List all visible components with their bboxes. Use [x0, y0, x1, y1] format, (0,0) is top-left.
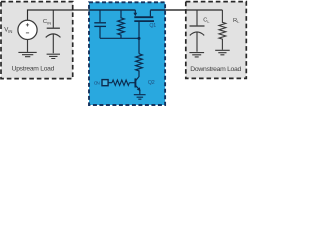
svg-text:Q2: Q2	[148, 80, 155, 86]
transistor Q1	[133, 10, 154, 21]
load switch box	[89, 2, 165, 105]
upstream load box	[1, 2, 73, 79]
transistor Q2	[135, 78, 140, 94]
wire: Q1 drain to RL	[150, 9, 222, 11]
ground (Vin)	[18, 52, 36, 56]
wire: R3 to base	[129, 82, 134, 84]
capacitor C_L	[190, 10, 205, 52]
resistor R3 (base)	[112, 80, 129, 85]
wire: Vin to ground	[27, 40, 29, 52]
svg-text:CL: CL	[203, 18, 210, 24]
node gate junction	[138, 37, 141, 40]
svg-text:ON: ON	[94, 81, 101, 87]
wire: rail inside switch	[88, 9, 135, 11]
wire: Vin to Q1 source	[28, 10, 136, 20]
svg-text:Q1: Q1	[149, 23, 156, 29]
svg-text:Downstream Load: Downstream Load	[190, 66, 241, 73]
downstream load box	[186, 2, 247, 79]
wire: switch output to downstream	[165, 9, 185, 11]
capacitor C1 (timing)	[94, 10, 106, 38]
ground (R_L)	[215, 50, 230, 55]
wire: RC bottom to gate node	[100, 37, 139, 39]
source V_IN	[18, 20, 37, 39]
pad ON input	[102, 80, 108, 86]
svg-text:Upstream Load: Upstream Load	[12, 66, 55, 73]
capacitor C_IN	[46, 11, 61, 54]
resistor R1 (timing)	[118, 10, 125, 38]
ground (Q2 emitter)	[134, 95, 146, 100]
svg-text:CIN: CIN	[43, 19, 51, 25]
ground (C_L)	[189, 53, 204, 57]
ground (C_IN)	[47, 54, 60, 58]
wire: pad to R3	[108, 82, 112, 84]
resistor R2 (gate pulldown)	[136, 54, 143, 81]
svg-text:RL: RL	[233, 18, 240, 24]
wire: gate lead down	[138, 22, 140, 54]
resistor R_L	[219, 10, 226, 50]
